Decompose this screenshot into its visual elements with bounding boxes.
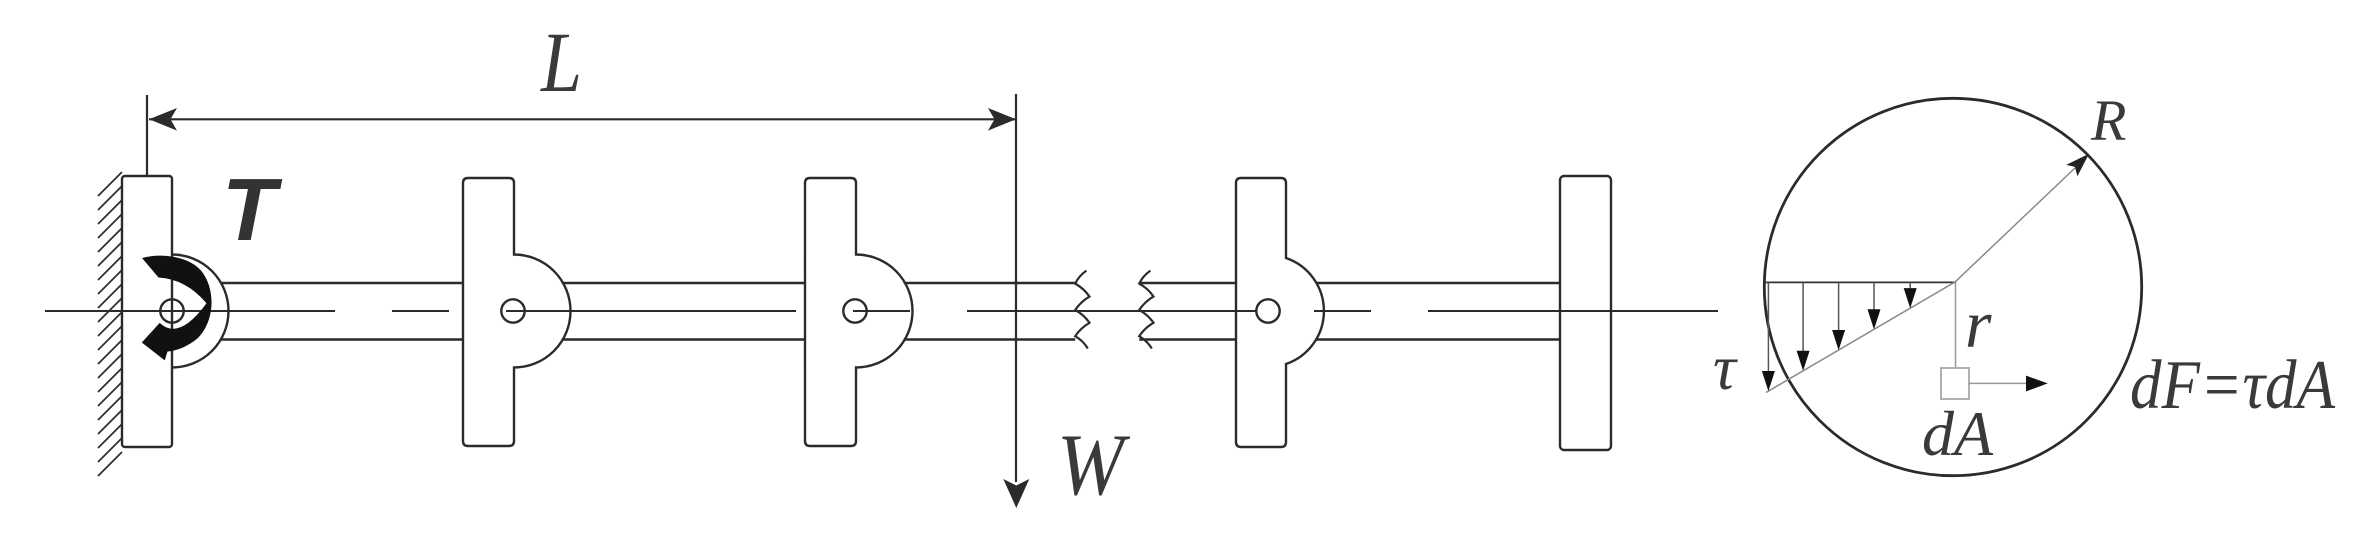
svg-text:dF=τdA: dF=τdA: [2130, 347, 2335, 424]
svg-text:W: W: [1057, 417, 1130, 514]
svg-text:τ: τ: [1713, 332, 1738, 403]
svg-text:R: R: [2090, 88, 2126, 153]
svg-text:dA: dA: [1922, 398, 1994, 469]
svg-text:r: r: [1965, 286, 1992, 362]
svg-text:L: L: [539, 14, 582, 110]
svg-text:T: T: [222, 160, 283, 259]
